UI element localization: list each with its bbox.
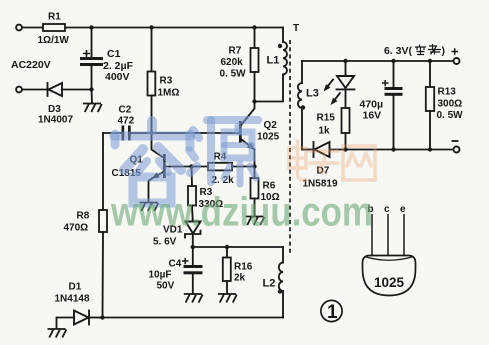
resistor R3 1M: [148, 28, 180, 134]
terminal AC input top: [16, 25, 22, 31]
node junction D3/C1: [89, 87, 93, 91]
svg-text:C2: C2: [119, 105, 132, 116]
resistor R7: [220, 28, 259, 102]
node junction C1 top: [89, 25, 93, 29]
node junction R4 right: [252, 164, 256, 168]
svg-text:c: c: [384, 204, 390, 215]
wire secondary top rail: [302, 60, 454, 62]
resistor R8: [64, 210, 108, 318]
svg-text:AC220V: AC220V: [11, 59, 51, 71]
wire AC bottom to D3: [22, 89, 48, 91]
watermark blue char yuan: [189, 120, 258, 184]
wire Q2 base line: [152, 132, 240, 134]
resistor R6: [251, 167, 280, 217]
node junction R16 top: [225, 245, 229, 249]
label AC220V: [11, 59, 51, 71]
node junction D1: [100, 315, 104, 319]
svg-text:470Ω: 470Ω: [64, 223, 89, 234]
svg-text:1Ω/1W: 1Ω/1W: [38, 35, 70, 46]
LED arrows: [324, 80, 341, 106]
zener diode VD1: [153, 222, 201, 248]
svg-text:6. 3V(: 6. 3V(: [384, 45, 413, 57]
watermark orange chars: [289, 141, 375, 180]
resistor R1: [38, 12, 70, 47]
svg-text:L1: L1: [267, 55, 280, 67]
svg-text:R3: R3: [160, 76, 173, 87]
wire bottom feedback rail: [103, 317, 284, 319]
ground Q1 emitter: [140, 203, 159, 212]
svg-text:1: 1: [327, 302, 338, 323]
terminal AC input bottom: [16, 87, 22, 93]
node junction R13 bottom: [428, 147, 432, 151]
node junction R3 top: [149, 25, 153, 29]
ground R16: [218, 294, 237, 303]
svg-text:L3: L3: [306, 88, 319, 100]
inductor L2 feedback winding: [263, 247, 284, 318]
node junction R4 left: [189, 164, 193, 168]
svg-text:1k: 1k: [319, 126, 331, 137]
svg-text:2k: 2k: [234, 273, 246, 284]
svg-text:400V: 400V: [105, 71, 130, 83]
diode D1: [55, 282, 103, 329]
svg-text:C1: C1: [107, 48, 121, 60]
svg-text:C4: C4: [169, 259, 182, 270]
svg-text:16V: 16V: [363, 110, 382, 122]
svg-text:0. 5W: 0. 5W: [220, 69, 247, 80]
ground main: [83, 90, 102, 113]
node junction base/C2: [149, 131, 153, 135]
terminal output plus: [454, 58, 460, 64]
svg-text:e: e: [400, 204, 406, 215]
svg-text:1MΩ: 1MΩ: [158, 88, 180, 99]
svg-text:300Ω: 300Ω: [438, 99, 463, 110]
terminal output minus: [452, 141, 460, 153]
diode D7: [302, 142, 454, 190]
svg-text:50V: 50V: [157, 281, 175, 292]
capacitor C2: [103, 105, 152, 141]
node junction R7 top: [252, 25, 256, 29]
svg-text:R15: R15: [317, 113, 336, 124]
node junction R15 bottom: [343, 147, 347, 151]
svg-text:L2: L2: [263, 278, 276, 290]
svg-text:1N4148: 1N4148: [55, 294, 90, 305]
svg-text:): ): [442, 45, 446, 57]
node junction Q2 collector: [252, 99, 256, 103]
svg-text:1025: 1025: [374, 275, 405, 290]
transistor Q1: [112, 133, 192, 202]
node junction R13 top: [428, 59, 432, 63]
resistor R15: [317, 108, 350, 150]
svg-text:10µF: 10µF: [149, 270, 172, 281]
watermark blue char rong: [114, 121, 191, 203]
svg-text:1025: 1025: [257, 132, 280, 143]
transistor Q2: [239, 102, 280, 167]
svg-text:R13: R13: [438, 87, 457, 98]
svg-text:1N4007: 1N4007: [38, 115, 73, 126]
svg-text:620k: 620k: [221, 57, 244, 68]
transistor 1025 package drawing: [363, 204, 416, 296]
resistor R13: [426, 61, 463, 150]
svg-text:5. 6V: 5. 6V: [153, 237, 177, 248]
svg-text:R16: R16: [234, 262, 253, 273]
LED indicator diode: [337, 61, 355, 108]
ground D1: [48, 329, 67, 338]
svg-text:472: 472: [118, 116, 135, 127]
resistor R4: [192, 152, 255, 187]
capacitor 470u: [360, 61, 403, 150]
node junction cap470 top: [391, 59, 395, 63]
svg-text:D1: D1: [69, 282, 82, 293]
figure number circled 1: [321, 300, 342, 323]
inductor L1 primary winding: [255, 28, 288, 102]
resistor R3 330: [188, 167, 223, 223]
watermark green url: [110, 190, 373, 235]
svg-text:T: T: [293, 23, 299, 34]
label 6.3V output: [384, 44, 458, 57]
diode D3: [38, 83, 92, 126]
node junction cap470 bottom: [391, 147, 395, 151]
ground R6: [246, 217, 265, 226]
node junction VD1 bottom: [191, 245, 195, 249]
svg-text:0. 5W: 0. 5W: [437, 110, 464, 121]
svg-text:R1: R1: [48, 12, 61, 23]
svg-text:Q2: Q2: [264, 120, 278, 131]
svg-text:R8: R8: [77, 211, 90, 222]
resistor R16: [223, 247, 253, 293]
svg-text:1N5819: 1N5819: [303, 179, 338, 190]
transformer core dashed: [290, 23, 299, 255]
node junction LED top: [343, 59, 347, 63]
svg-text:www.dziuu.com: www.dziuu.com: [110, 190, 373, 235]
wire feedback node line: [193, 246, 283, 248]
svg-text:D3: D3: [48, 104, 61, 115]
svg-text:R7: R7: [229, 46, 242, 57]
ground C4: [184, 294, 203, 303]
inductor L3 secondary winding: [298, 61, 319, 150]
wire top rail: [22, 27, 283, 29]
capacitor C1: [80, 28, 134, 90]
wire left vertical C2 to R8: [102, 133, 104, 210]
capacitor C4: [149, 247, 203, 293]
